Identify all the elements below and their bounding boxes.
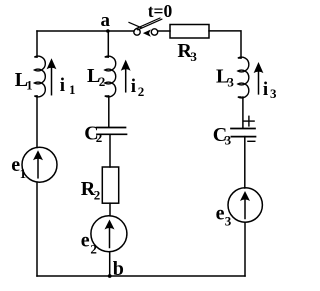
switch contact left <box>134 29 140 35</box>
wire top left horizontal (a to switch) <box>37 30 134 32</box>
node a <box>106 29 110 33</box>
capacitor C3 polarity plus <box>244 120 254 122</box>
svg-text:3: 3 <box>227 74 234 89</box>
svg-text:e: e <box>216 203 225 225</box>
svg-text:3: 3 <box>225 214 232 229</box>
svg-text:1: 1 <box>69 82 76 97</box>
resistor R3 <box>170 25 209 39</box>
source e1 <box>22 147 57 182</box>
svg-text:2: 2 <box>94 188 101 203</box>
wire R3 to top right corner <box>209 31 241 58</box>
current arrow i2 <box>125 68 127 92</box>
current arrow i1 <box>51 67 53 95</box>
switch actuation line <box>129 22 142 27</box>
svg-text:3: 3 <box>225 133 232 148</box>
svg-text:t=0: t=0 <box>148 1 173 21</box>
svg-text:a: a <box>101 10 111 31</box>
source e3 <box>228 188 262 222</box>
wire bottom horizontal <box>37 275 245 277</box>
switch blade (double line) <box>136 18 160 29</box>
source e2 <box>91 216 127 252</box>
svg-text:2: 2 <box>99 74 106 89</box>
wire C3 to e3 <box>244 137 246 188</box>
inductor L1 <box>34 56 45 97</box>
svg-text:i: i <box>131 76 136 97</box>
inductor L3 <box>238 57 249 98</box>
inductor L2 <box>105 56 116 97</box>
wire a down to L2 <box>107 31 109 57</box>
capacitor C3 polarity minus <box>248 140 255 142</box>
svg-text:2: 2 <box>90 242 97 257</box>
wire e1 to bottom corner <box>36 182 38 276</box>
svg-text:1: 1 <box>26 79 32 93</box>
capacitor C3 <box>231 128 255 130</box>
capacitor C2 <box>97 127 126 129</box>
wire switch to R3 <box>158 30 170 32</box>
resistor R2 <box>102 167 118 203</box>
svg-text:2: 2 <box>138 84 145 99</box>
node b <box>108 274 112 278</box>
svg-text:i: i <box>263 79 268 100</box>
wire e3 to bottom right corner <box>244 222 246 276</box>
wire C2 to R2 <box>109 134 111 167</box>
switch closing arrowhead <box>143 30 151 37</box>
wire e2 to b <box>109 252 111 276</box>
wire L3 to C3 <box>242 97 244 128</box>
svg-text:1: 1 <box>20 166 27 181</box>
wire R2 to e2 <box>109 203 111 216</box>
switch contact right <box>151 29 157 35</box>
current arrow i3 <box>258 71 260 94</box>
svg-text:2: 2 <box>96 130 103 145</box>
svg-text:3: 3 <box>190 49 197 64</box>
wire left vertical top (corner to L1) <box>36 31 38 57</box>
wire L2 to C2 <box>108 96 110 127</box>
wire L1 to e1 <box>36 96 38 148</box>
svg-text:3: 3 <box>270 86 277 101</box>
svg-text:b: b <box>113 258 124 280</box>
svg-text:e: e <box>81 230 90 252</box>
svg-text:i: i <box>60 75 65 96</box>
